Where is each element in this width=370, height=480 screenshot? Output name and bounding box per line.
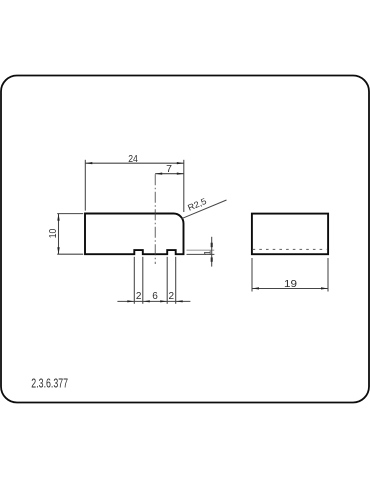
svg-text:24: 24 — [128, 153, 138, 165]
ext line right of 19 — [327, 258, 329, 292]
arrow left 7 — [155, 173, 162, 175]
arrow at notch2 outer — [176, 300, 183, 302]
arrow top 10 — [57, 214, 59, 221]
ext line notch1 outer — [133, 257, 135, 304]
arrow at notch2 inner — [160, 300, 167, 302]
arrow right 24 — [177, 162, 184, 164]
side view outline — [252, 214, 328, 255]
ext line right of 24/7 — [183, 160, 185, 212]
svg-text:6: 6 — [152, 291, 158, 302]
svg-text:7: 7 — [166, 163, 172, 175]
svg-text:10: 10 — [47, 229, 59, 239]
svg-text:19: 19 — [284, 278, 297, 290]
ext line top of 10 — [57, 213, 83, 215]
svg-text:2: 2 — [136, 291, 142, 302]
dimension 19 — [252, 258, 328, 292]
dim line 19 — [252, 288, 328, 290]
dim line vertical 1 — [211, 237, 213, 267]
ext line left of 24 — [84, 160, 86, 211]
ext line notch top level — [187, 249, 215, 251]
hidden line notch depth — [253, 248, 327, 250]
centerline — [154, 174, 156, 264]
arrow below 1 — [211, 257, 213, 261]
svg-text:2.3.6.377: 2.3.6.377 — [31, 375, 68, 390]
arrow right 19 — [321, 287, 328, 289]
arrow bottom 10 — [57, 247, 59, 254]
dim line 10 — [58, 214, 60, 255]
part outline main view — [85, 214, 184, 255]
dimension 7 — [155, 173, 184, 175]
svg-text:R2,5: R2,5 — [186, 196, 208, 213]
ext line notch2 inner — [166, 257, 168, 304]
ext line notch2 outer — [175, 257, 177, 304]
svg-text:1: 1 — [202, 250, 213, 255]
lower chain dimensions 2 6 2 — [117, 257, 190, 304]
ext line bottom of 10 — [57, 253, 83, 255]
arrow right 7 — [177, 173, 184, 175]
dim line 24 — [85, 162, 184, 164]
arrow left 24 — [85, 162, 92, 164]
svg-text:2: 2 — [169, 291, 175, 302]
arrow at notch1 outer — [127, 300, 134, 302]
ext line notch1 inner — [142, 257, 144, 304]
ext line bottom edge level — [187, 253, 215, 255]
dimension 10 — [57, 214, 83, 255]
drawing sheet frame — [1, 76, 369, 403]
notch depth dimension 1 — [187, 237, 215, 267]
ext line left of 19 — [251, 258, 253, 292]
arrow left 19 — [252, 287, 259, 289]
dim line 2 6 2 — [117, 300, 190, 302]
radius leader R2,5 — [181, 200, 226, 219]
dimension 24 — [85, 160, 184, 212]
arrow above 1 — [211, 243, 213, 248]
arrow at notch1 inner — [143, 300, 150, 302]
